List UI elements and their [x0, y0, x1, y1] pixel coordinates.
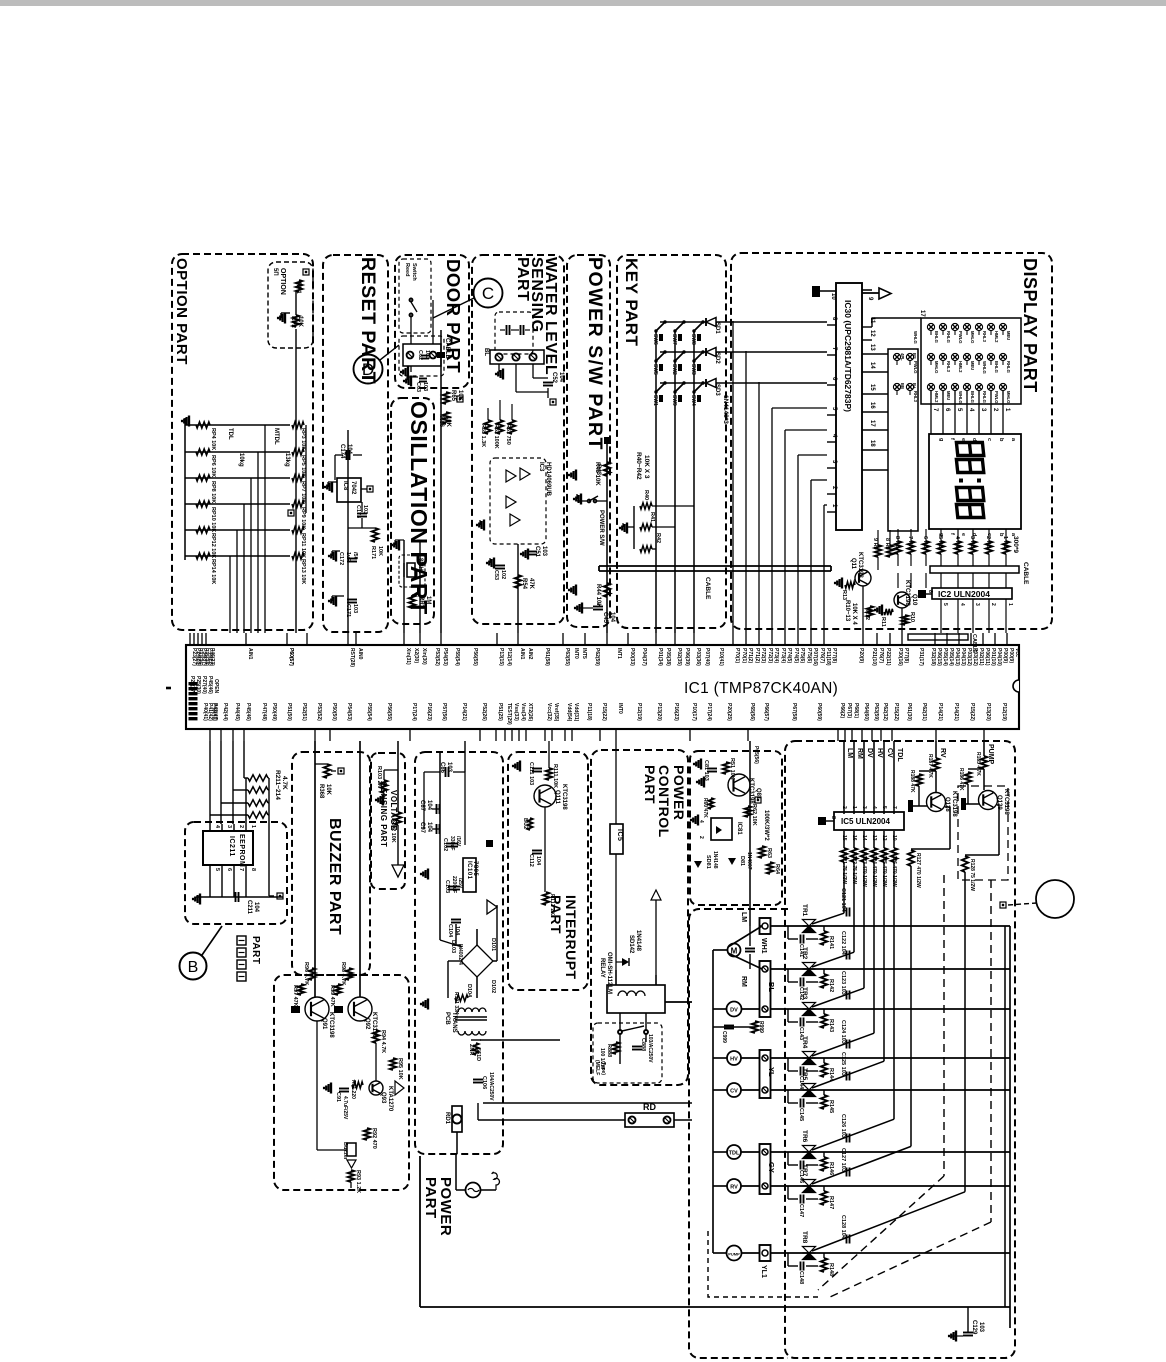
svg-text:KTC3198: KTC3198 [857, 552, 863, 578]
svg-text:6 R6: 6 R6 [922, 536, 928, 548]
svg-text:P74(5): P74(5) [786, 648, 792, 663]
svg-text:LM: LM [846, 748, 853, 758]
svg-text:C888: C888 [640, 1038, 646, 1051]
svg-text:SD81: SD81 [705, 855, 711, 869]
svg-text:R97 47K: R97 47K [292, 985, 298, 1007]
svg-text:C123 103: C123 103 [840, 971, 846, 995]
svg-text:TRANS: TRANS [451, 1012, 457, 1033]
svg-text:10: 10 [830, 293, 836, 300]
svg-text:R102 10K: R102 10K [390, 818, 396, 843]
svg-text:WHLG: WHLG [913, 331, 918, 344]
svg-text:BU2: BU2 [522, 818, 528, 829]
svg-text:15: 15 [869, 384, 875, 391]
svg-text:Switch: Switch [411, 263, 417, 281]
svg-text:P54(53): P54(53) [442, 648, 448, 666]
svg-text:IC101: IC101 [466, 861, 472, 880]
svg-text:MEU: MEU [1006, 331, 1011, 340]
svg-text:P02(35): P02(35) [676, 648, 682, 666]
svg-text:RHLG: RHLG [946, 331, 951, 343]
svg-text:DV: DV [866, 748, 873, 758]
svg-text:10K X 3: 10K X 3 [643, 455, 650, 479]
svg-text:R146: R146 [828, 1162, 834, 1175]
svg-text:P05(38): P05(38) [665, 648, 671, 666]
svg-text:102: 102 [500, 570, 506, 579]
svg-text:P00(33): P00(33) [629, 648, 635, 666]
svg-text:PCB: PCB [444, 1012, 450, 1025]
svg-text:C91: C91 [335, 1092, 341, 1102]
svg-text:MHLG: MHLG [934, 361, 939, 373]
svg-text:HML2: HML2 [958, 361, 963, 373]
svg-text:8MHz: 8MHz [417, 558, 423, 574]
svg-text:P53(52): P53(52) [316, 703, 322, 721]
svg-text:RV: RV [730, 1185, 738, 1191]
svg-text:IC30 (UPC2981A/TD62783P): IC30 (UPC2981A/TD62783P) [843, 300, 853, 412]
svg-text:P06(39): P06(39) [684, 648, 690, 666]
svg-text:47K: 47K [528, 578, 534, 590]
svg-text:P61(58): P61(58) [544, 648, 550, 666]
svg-text:R143: R143 [828, 1019, 834, 1032]
svg-text:P56(55): P56(55) [386, 703, 392, 721]
svg-text:R96 4.7K: R96 4.7K [303, 962, 309, 985]
svg-text:KTC3198: KTC3198 [561, 784, 567, 810]
svg-text:P04(13): P04(13) [960, 648, 966, 666]
svg-text:1: 1 [1007, 603, 1013, 606]
svg-text:TEST(29): TEST(29) [506, 703, 512, 725]
svg-text:C148: C148 [798, 1271, 804, 1284]
svg-text:P72(3): P72(3) [760, 648, 766, 663]
svg-text:PUMP: PUMP [728, 1252, 740, 1257]
svg-text:P12(19): P12(19) [1001, 703, 1007, 721]
svg-text:TDL: TDL [896, 748, 903, 762]
svg-text:BB: BB [900, 383, 905, 389]
svg-text:R62 10K: R62 10K [751, 804, 757, 826]
svg-text:4.7uF/25V: 4.7uF/25V [342, 1096, 348, 1120]
svg-text:OSILLATION PART: OSILLATION PART [406, 401, 432, 615]
svg-text:4: 4 [959, 603, 965, 606]
svg-text:104: 104 [558, 372, 564, 383]
svg-text:C126 103: C126 103 [840, 1114, 846, 1138]
svg-text:P61(30): P61(30) [906, 703, 912, 721]
svg-text:3: 3 [861, 806, 867, 809]
svg-text:R10: R10 [909, 612, 915, 622]
svg-text:P67(58): P67(58) [791, 703, 797, 721]
svg-text:P06(15): P06(15) [936, 648, 942, 666]
svg-text:2: 2 [841, 806, 847, 809]
svg-text:R127 470 1/2W: R127 470 1/2W [915, 853, 921, 888]
svg-text:IC1 (TMP87CK40AN): IC1 (TMP87CK40AN) [684, 680, 838, 697]
svg-text:P15(22): P15(22) [893, 703, 899, 721]
svg-text:C147: C147 [798, 1204, 804, 1217]
svg-text:P66(2): P66(2) [839, 703, 845, 718]
svg-text:R103 2K: R103 2K [376, 766, 382, 788]
svg-text:INT0: INT0 [573, 648, 579, 659]
svg-text:Q92: Q92 [364, 1018, 370, 1030]
svg-text:SD3: SD3 [714, 384, 720, 396]
svg-text:P72(3): P72(3) [767, 648, 773, 663]
svg-text:D101: D101 [490, 938, 496, 951]
svg-text:P00(9): P00(9) [1008, 648, 1014, 663]
svg-text:IC3: IC3 [538, 462, 544, 472]
svg-text:1N4148*3: 1N4148*3 [722, 395, 729, 424]
svg-text:RST(28): RST(28) [349, 648, 355, 667]
svg-text:P35(38): P35(38) [203, 648, 209, 666]
svg-text:103: 103 [362, 505, 368, 514]
svg-text:P51(50): P51(50) [286, 703, 292, 721]
svg-text:SW1: SW1 [652, 395, 658, 406]
svg-text:Q128: Q128 [944, 797, 950, 812]
svg-text:C174: C174 [339, 444, 345, 459]
svg-text:P74(5): P74(5) [793, 648, 799, 663]
svg-text:HV: HV [876, 748, 883, 758]
svg-text:P52(26): P52(26) [481, 703, 487, 721]
svg-text:PWLG: PWLG [958, 331, 963, 344]
svg-text:12: 12 [869, 330, 875, 337]
svg-text:TDL: TDL [227, 428, 233, 440]
svg-text:R10~13: R10~13 [844, 600, 850, 622]
svg-text:104: 104 [346, 444, 352, 455]
svg-text:RM: RM [856, 748, 863, 759]
svg-text:P46(23): P46(23) [209, 648, 215, 666]
svg-text:Xin(31): Xin(31) [405, 648, 411, 665]
svg-text:DISPLAY PART: DISPLAY PART [1020, 258, 1040, 393]
svg-text:XT2(26): XT2(26) [527, 703, 533, 721]
svg-text:SW4: SW4 [690, 395, 696, 406]
svg-text:P32(18): P32(18) [930, 648, 936, 666]
svg-text:P04(37): P04(37) [641, 648, 647, 666]
svg-text:C45: C45 [602, 612, 608, 624]
svg-text:P52(51): P52(51) [301, 703, 307, 721]
svg-text:IC5 ULN2004: IC5 ULN2004 [841, 817, 890, 826]
svg-text:AIN1: AIN1 [519, 648, 525, 660]
svg-text:C128 104: C128 104 [840, 1215, 846, 1240]
svg-text:MEU: MEU [946, 391, 951, 400]
svg-text:P57(56): P57(56) [441, 703, 447, 721]
svg-text:P67(3): P67(3) [846, 703, 852, 718]
svg-text:1N4007: 1N4007 [746, 852, 752, 870]
svg-text:10K: 10K [377, 546, 383, 556]
svg-text:100K/3W*2: 100K/3W*2 [763, 810, 769, 841]
svg-text:OPTION PART: OPTION PART [173, 258, 190, 365]
svg-text:C111 103: C111 103 [528, 762, 534, 785]
svg-text:P70(1): P70(1) [741, 648, 747, 663]
svg-text:PART: PART [422, 1177, 439, 1219]
svg-text:103/AC250V: 103/AC250V [647, 1034, 653, 1063]
svg-text:SD142: SD142 [628, 935, 634, 954]
svg-text:RP10 10K: RP10 10K [210, 507, 216, 532]
svg-text:PART: PART [642, 765, 658, 804]
svg-text:AIN0: AIN0 [357, 648, 363, 660]
svg-text:C127 103: C127 103 [840, 1148, 846, 1172]
svg-text:R43 10K: R43 10K [594, 462, 600, 486]
svg-text:14: 14 [869, 362, 875, 369]
svg-text:C122 104: C122 104 [840, 931, 846, 956]
svg-text:R54: R54 [521, 578, 527, 590]
svg-text:PWLG: PWLG [913, 361, 918, 374]
svg-text:C104: C104 [447, 924, 453, 938]
svg-text:TDL: TDL [729, 1151, 740, 1157]
svg-text:4 R4: 4 R4 [954, 536, 960, 549]
svg-text:P65(56): P65(56) [753, 746, 759, 764]
svg-text:/25V: /25V [457, 878, 463, 889]
svg-text:R64: R64 [774, 864, 780, 875]
svg-text:P22(11): P22(11) [885, 648, 891, 666]
svg-text:RP12 10K: RP12 10K [210, 533, 216, 558]
svg-text:10K: 10K [325, 784, 331, 796]
svg-text:C171: C171 [345, 604, 351, 617]
svg-text:HD14069UB: HD14069UB [545, 462, 551, 497]
svg-text:7: 7 [238, 868, 244, 871]
svg-text:P11(18): P11(18) [825, 648, 831, 666]
svg-text:WH1: WH1 [760, 938, 767, 954]
svg-text:Type): Type) [600, 1062, 606, 1075]
svg-text:10K: 10K [445, 416, 451, 428]
svg-text:2 R2: 2 R2 [985, 536, 991, 548]
svg-text:POWER S/W PART: POWER S/W PART [584, 257, 606, 451]
svg-text:5: 5 [214, 868, 220, 871]
svg-text:1N4148: 1N4148 [712, 851, 718, 869]
svg-text:RELAY: RELAY [599, 958, 605, 978]
svg-text:2200uF: 2200uF [451, 876, 457, 893]
svg-text:Reed: Reed [404, 263, 410, 276]
svg-text:103: 103 [978, 1322, 984, 1333]
svg-text:SD1: SD1 [714, 322, 720, 334]
svg-text:P05(14): P05(14) [948, 648, 954, 666]
svg-text:13kg: 13kg [284, 453, 290, 467]
svg-text:R63: R63 [766, 848, 772, 858]
svg-text:MTDL: MTDL [273, 428, 279, 445]
svg-text:CV: CV [730, 1089, 738, 1095]
svg-text:R147: R147 [828, 1196, 834, 1209]
svg-text:P75(6): P75(6) [799, 648, 805, 663]
svg-text:MHLG: MHLG [1006, 391, 1011, 403]
svg-text:5 R5: 5 R5 [937, 536, 943, 548]
svg-text:P63(55): P63(55) [564, 648, 570, 666]
svg-text:HML2: HML2 [994, 331, 999, 343]
svg-text:18: 18 [869, 440, 875, 447]
svg-text:C87: C87 [419, 800, 425, 812]
svg-text:RP6 10K: RP6 10K [210, 455, 216, 477]
svg-text:3 R3: 3 R3 [969, 536, 975, 548]
svg-text:3: 3 [974, 603, 980, 606]
svg-text:R186 47K: R186 47K [958, 768, 964, 791]
svg-text:104: 104 [454, 926, 460, 936]
svg-text:TR6: TR6 [801, 1130, 808, 1143]
svg-text:RHLG: RHLG [1006, 361, 1011, 373]
svg-text:R51 750: R51 750 [505, 424, 511, 445]
svg-text:P54(53): P54(53) [346, 703, 352, 721]
svg-text:KTC3198: KTC3198 [328, 1012, 334, 1038]
svg-text:103: 103 [422, 382, 428, 391]
svg-text:P13(20): P13(20) [656, 703, 662, 721]
svg-text:R185 4.7K: R185 4.7K [975, 752, 981, 776]
svg-text:RP2: RP2 [290, 316, 296, 328]
svg-text:IC8: IC8 [342, 481, 348, 491]
svg-text:10kg: 10kg [238, 453, 244, 467]
svg-text:CABLE: CABLE [444, 338, 450, 359]
svg-text:1: 1 [851, 806, 857, 809]
svg-text:RHL3: RHL3 [946, 361, 951, 373]
svg-text:R113 2K: R113 2K [549, 894, 555, 915]
svg-text:16: 16 [869, 402, 875, 409]
svg-text:10K X 4: 10K X 4 [851, 603, 857, 625]
svg-text:GY: GY [767, 1162, 776, 1173]
svg-text:R65: R65 [450, 390, 456, 402]
svg-text:X2(30): X2(30) [413, 648, 419, 663]
svg-text:R55 1.3K: R55 1.3K [480, 424, 486, 447]
svg-text:C51: C51 [534, 546, 540, 558]
svg-text:e: e [960, 438, 966, 441]
svg-text:1uF: 1uF [345, 552, 351, 562]
svg-text:104: 104 [253, 902, 259, 913]
svg-text:EEPROM: EEPROM [238, 834, 245, 867]
svg-text:WHLG: WHLG [958, 391, 963, 404]
svg-text:R211~214: R211~214 [274, 770, 281, 800]
svg-text:Q11: Q11 [850, 558, 856, 570]
svg-text:8 R8: 8 R8 [884, 538, 890, 550]
svg-text:P04(10): P04(10) [996, 648, 1002, 666]
svg-text:C121 104: C121 104 [840, 888, 846, 913]
svg-text:C173: C173 [355, 505, 361, 518]
svg-text:P60(57): P60(57) [288, 648, 294, 666]
svg-text:7 R7: 7 R7 [907, 536, 913, 548]
svg-text:D81: D81 [739, 856, 745, 866]
svg-text:C: C [482, 284, 494, 303]
svg-text:P01(34): P01(34) [657, 648, 663, 666]
svg-text:P17(24): P17(24) [706, 703, 712, 721]
svg-text:P56(55): P56(55) [472, 648, 478, 666]
svg-text:7: 7 [891, 806, 897, 809]
svg-text:AIN1: AIN1 [247, 648, 253, 660]
svg-text:Q111: Q111 [554, 790, 560, 805]
svg-text:C102: C102 [442, 838, 448, 851]
svg-text:Q81: Q81 [755, 788, 761, 800]
svg-text:P13(15): P13(15) [498, 648, 504, 666]
svg-text:PART: PART [514, 257, 531, 301]
svg-text:RP13 10K: RP13 10K [300, 559, 306, 584]
svg-text:HML2: HML2 [934, 391, 939, 403]
svg-text:Vcc(32): Vcc(32) [546, 703, 552, 721]
svg-text:P44(45): P44(45) [234, 703, 240, 721]
svg-text:C125 103: C125 103 [840, 1052, 846, 1076]
svg-text:B+: B+ [912, 383, 917, 389]
svg-text:YL1: YL1 [760, 1265, 767, 1278]
svg-text:R888: R888 [606, 1044, 612, 1057]
svg-text:R40: R40 [643, 490, 649, 500]
svg-text:TR1: TR1 [801, 904, 808, 917]
svg-text:P47(48): P47(48) [261, 703, 267, 721]
svg-text:R12: R12 [864, 610, 870, 620]
svg-text:RP4 10K: RP4 10K [210, 428, 216, 450]
svg-text:INT1: INT1 [616, 648, 622, 659]
svg-text:104: 104 [535, 856, 541, 866]
svg-text:P30(16): P30(16) [897, 648, 903, 666]
svg-text:PWLG: PWLG [994, 391, 999, 404]
svg-text:P11(18): P11(18) [586, 703, 592, 721]
svg-text:SW8: SW8 [690, 334, 696, 345]
svg-text:P14(21): P14(21) [953, 703, 959, 721]
svg-text:SW5: SW5 [652, 364, 658, 375]
svg-text:YL: YL [767, 1067, 776, 1077]
svg-text:103: 103 [446, 762, 452, 773]
svg-text:8: 8 [927, 590, 933, 593]
svg-text:P12(14): P12(14) [506, 648, 512, 666]
svg-text:R142: R142 [828, 979, 834, 992]
svg-text:104: 104 [609, 612, 615, 623]
svg-text:Vss(33): Vss(33) [513, 703, 519, 721]
svg-text:P65(56): P65(56) [749, 703, 755, 721]
svg-text:R95 10K: R95 10K [397, 1058, 403, 1080]
svg-text:P71(2): P71(2) [754, 648, 760, 663]
svg-text:R141: R141 [828, 936, 834, 949]
svg-text:LM: LM [740, 912, 747, 922]
svg-text:R93 1.2K: R93 1.2K [355, 1170, 361, 1193]
svg-text:R42: R42 [655, 533, 661, 543]
svg-text:R187 4.7K: R187 4.7K [927, 754, 933, 778]
svg-text:RR1: RR1 [418, 596, 424, 609]
svg-text:CABLE: CABLE [1022, 562, 1029, 585]
svg-text:R188 47K: R188 47K [909, 770, 915, 793]
svg-text:RV: RV [939, 748, 946, 758]
svg-text:P14(21): P14(21) [937, 703, 943, 721]
svg-text:Vss(34): Vss(34) [520, 703, 526, 721]
svg-text:R368: R368 [318, 784, 324, 799]
svg-text:300*9: 300*9 [1012, 536, 1019, 553]
svg-text:BS: BS [912, 353, 917, 359]
svg-text:SW9: SW9 [671, 395, 677, 406]
svg-text:P07(40): P07(40) [704, 648, 710, 666]
svg-text:BL: BL [483, 348, 489, 356]
svg-text:561D: 561D [475, 1048, 481, 1061]
svg-text:IC211: IC211 [228, 836, 235, 857]
svg-text:HV: HV [730, 1057, 738, 1063]
svg-text:P62(32): P62(32) [882, 703, 888, 721]
svg-text:P62(59): P62(59) [594, 648, 600, 666]
svg-text:R41: R41 [649, 512, 655, 522]
svg-text:MHLG: MHLG [970, 331, 975, 343]
svg-text:INT5: INT5 [581, 648, 587, 659]
svg-text:P77(8): P77(8) [903, 648, 909, 663]
svg-text:13: 13 [869, 344, 875, 351]
svg-text:D103: D103 [450, 940, 456, 953]
svg-text:P73(4): P73(4) [780, 648, 786, 663]
svg-text:KTC3198: KTC3198 [748, 778, 754, 804]
svg-text:C106: C106 [481, 1076, 487, 1089]
svg-text:P10(41): P10(41) [718, 648, 724, 666]
svg-text:P21(10): P21(10) [871, 648, 877, 666]
svg-text:6: 6 [226, 868, 232, 871]
svg-text:RP8 10K: RP8 10K [210, 481, 216, 503]
svg-text:7042: 7042 [350, 481, 356, 495]
svg-text:C52: C52 [551, 372, 557, 384]
svg-text:1: 1 [250, 825, 256, 828]
svg-text:R52 100K: R52 100K [493, 424, 499, 449]
svg-text:330uF: 330uF [449, 836, 455, 850]
svg-text:R111 10K: R111 10K [552, 764, 558, 788]
svg-text:4PL: 4PL [900, 353, 905, 361]
svg-text:TR7: TR7 [801, 1164, 808, 1177]
svg-text:P07(16): P07(16) [812, 648, 818, 666]
svg-text:f: f [949, 533, 955, 535]
svg-text:9 R9: 9 R9 [872, 538, 878, 550]
svg-text:P68(1): P68(1) [853, 703, 859, 718]
svg-text:P16(23): P16(23) [673, 703, 679, 721]
svg-text:P03(36): P03(36) [695, 648, 701, 666]
svg-text:INTERRUPT: INTERRUPT [563, 895, 579, 980]
svg-text:CABLE: CABLE [971, 634, 977, 653]
svg-text:17: 17 [919, 310, 925, 317]
svg-text:IC81: IC81 [736, 822, 742, 835]
svg-text:10K: 10K [297, 316, 303, 328]
